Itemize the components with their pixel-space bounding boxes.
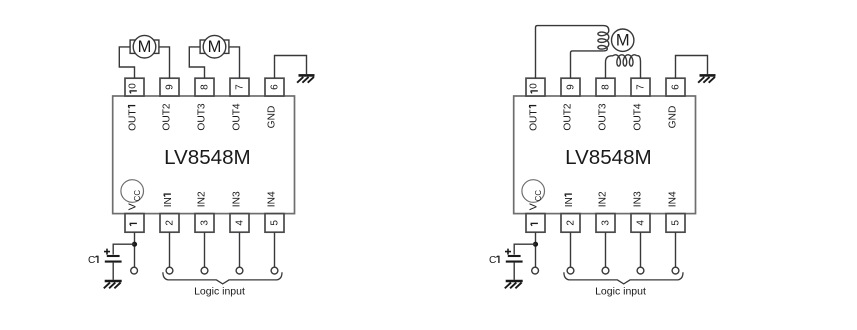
logic input terminal IN3 — [236, 267, 243, 274]
svg-text:CC: CC — [133, 190, 142, 202]
svg-text:C: C — [489, 255, 496, 266]
ground at pin6 — [299, 74, 315, 77]
ground below C1 — [506, 280, 523, 283]
svg-text:IN3: IN3 — [232, 191, 243, 207]
ground at pin6 — [700, 74, 716, 77]
wire C1 to ground — [513, 263, 515, 280]
junction node on VCC wire — [132, 242, 137, 247]
wire junction to capacitor C1 — [514, 244, 535, 254]
wire pin5 to logic input terminal — [675, 232, 677, 267]
svg-text:LV8548M: LV8548M — [565, 146, 652, 169]
svg-text:V: V — [126, 203, 138, 210]
wire pin4 to logic input terminal — [239, 232, 241, 267]
pin box 3 — [195, 214, 214, 233]
motor M1 — [130, 40, 159, 53]
pin box 8 — [596, 78, 615, 96]
pin number 1 — [531, 222, 538, 224]
logic input brace — [564, 272, 683, 284]
pin box 7 — [230, 78, 249, 96]
svg-text:9: 9 — [566, 84, 577, 90]
stepper coil B (horizontal) — [613, 55, 637, 66]
svg-text:9: 9 — [165, 84, 176, 90]
pin box 9 — [561, 78, 580, 96]
svg-text:IN3: IN3 — [633, 191, 644, 207]
pin box 6 — [265, 78, 284, 96]
svg-text:8: 8 — [200, 84, 211, 90]
svg-text:OUT2: OUT2 — [563, 103, 574, 131]
svg-text:IN: IN — [163, 197, 174, 207]
logic input terminal IN1 — [567, 267, 574, 274]
wire pin2 to logic input terminal — [169, 232, 171, 267]
ground below C1 — [105, 280, 122, 283]
logic input terminal IN4 — [672, 267, 679, 274]
svg-text:M: M — [616, 32, 630, 50]
wire OUT3 (pin8) to motor M2 left terminal — [189, 47, 204, 78]
svg-text:LV8548M: LV8548M — [164, 146, 251, 169]
svg-text:0: 0 — [128, 83, 139, 89]
wire pin5 to logic input terminal — [274, 232, 276, 267]
stepper coil A (vertical) — [598, 31, 609, 51]
svg-text:2: 2 — [165, 220, 176, 226]
pin box 4 — [230, 214, 249, 233]
svg-text:5: 5 — [270, 220, 281, 226]
svg-text:OUT2: OUT2 — [162, 103, 173, 131]
wire pin6 to ground — [676, 56, 708, 79]
svg-text:GND: GND — [267, 106, 278, 129]
logic input brace — [163, 272, 282, 284]
wire motor M1 right terminal to OUT2 (pin9) — [159, 47, 170, 78]
svg-text:6: 6 — [270, 84, 281, 90]
junction node on VCC wire — [533, 242, 538, 247]
capacitor C1 plates — [508, 255, 521, 257]
pin box 1 — [125, 214, 144, 233]
svg-text:3: 3 — [601, 220, 612, 226]
svg-text:7: 7 — [235, 84, 246, 90]
wire junction to capacitor C1 — [113, 244, 134, 254]
logic input terminal IN3 — [637, 267, 644, 274]
pin box 9 — [160, 78, 179, 96]
svg-text:IN4: IN4 — [267, 191, 278, 207]
capacitor C1 plates — [107, 255, 120, 257]
logic input terminal IN2 — [201, 267, 208, 274]
stepper motor M — [612, 29, 634, 51]
svg-text:OUT: OUT — [528, 109, 539, 131]
wire pin2 to logic input terminal — [570, 232, 572, 267]
svg-text:OUT: OUT — [127, 109, 138, 131]
pin box 1 — [526, 214, 545, 233]
svg-text:5: 5 — [671, 220, 682, 226]
svg-text:4: 4 — [235, 220, 246, 226]
svg-text:IN4: IN4 — [668, 191, 679, 207]
wire pin1 to VCC terminal — [134, 232, 136, 267]
wire pin6 to ground — [275, 56, 307, 79]
pin box 3 — [596, 214, 615, 233]
pin box 5 — [666, 214, 685, 233]
wire pin3 to logic input terminal — [204, 232, 206, 267]
svg-text:IN2: IN2 — [197, 191, 208, 207]
logic input terminal IN1 — [166, 267, 173, 274]
svg-text:4: 4 — [636, 220, 647, 226]
VCC pin label circle — [121, 180, 144, 203]
svg-text:OUT3: OUT3 — [197, 103, 208, 131]
VCC input terminal — [131, 267, 138, 274]
capacitor C1 plus sign — [505, 249, 511, 255]
svg-text:IN: IN — [564, 197, 575, 207]
svg-text:M: M — [138, 38, 152, 56]
wire OUT3 (pin8) to stepper coil B left — [606, 56, 614, 78]
wire motor M2 right terminal to OUT4 (pin7) — [229, 47, 240, 78]
pin box 5 — [265, 214, 284, 233]
pin box 2 — [160, 214, 179, 233]
wire stepper coil A bottom to OUT2 (pin9) — [571, 51, 604, 78]
svg-text:C: C — [88, 255, 95, 266]
svg-text:6: 6 — [671, 84, 682, 90]
pin box 2 — [561, 214, 580, 233]
wire pin3 to logic input terminal — [605, 232, 607, 267]
wire pin1 to VCC terminal — [535, 232, 537, 267]
svg-text:Logic input: Logic input — [194, 286, 245, 298]
svg-text:7: 7 — [636, 84, 647, 90]
svg-text:IN2: IN2 — [598, 191, 609, 207]
pin number 1 — [130, 222, 137, 224]
VCC input terminal — [532, 267, 539, 274]
logic input terminal IN4 — [271, 267, 278, 274]
logic input terminal IN2 — [602, 267, 609, 274]
pin box 8 — [195, 78, 214, 96]
wire OUT1 (pin10) to stepper coil A top — [536, 26, 609, 79]
wire pin4 to logic input terminal — [640, 232, 642, 267]
svg-text:GND: GND — [668, 106, 679, 129]
svg-text:OUT4: OUT4 — [633, 103, 644, 131]
svg-text:CC: CC — [534, 190, 543, 202]
capacitor C1 plus sign — [104, 249, 110, 255]
svg-text:OUT3: OUT3 — [598, 103, 609, 131]
pin box 7 — [631, 78, 650, 96]
wire C1 to ground — [112, 263, 114, 280]
svg-text:2: 2 — [566, 220, 577, 226]
svg-text:3: 3 — [200, 220, 211, 226]
svg-text:0: 0 — [529, 83, 540, 89]
svg-text:8: 8 — [601, 84, 612, 90]
svg-text:Logic input: Logic input — [595, 286, 646, 298]
wire stepper coil B right to OUT4 (pin7) — [637, 56, 641, 79]
pin box 6 — [666, 78, 685, 96]
VCC pin label circle — [522, 180, 545, 203]
wire OUT1 (pin10) to motor M1 left terminal — [119, 47, 134, 78]
svg-text:OUT4: OUT4 — [232, 103, 243, 131]
IC U1 LV8548M body — [514, 96, 696, 214]
svg-text:M: M — [208, 38, 222, 56]
motor M2 — [200, 40, 229, 53]
svg-text:V: V — [527, 203, 539, 210]
pin box 4 — [631, 214, 650, 233]
IC U1 LV8548M body — [113, 96, 295, 214]
pin box 10 — [125, 78, 144, 96]
pin box 10 — [526, 78, 545, 96]
